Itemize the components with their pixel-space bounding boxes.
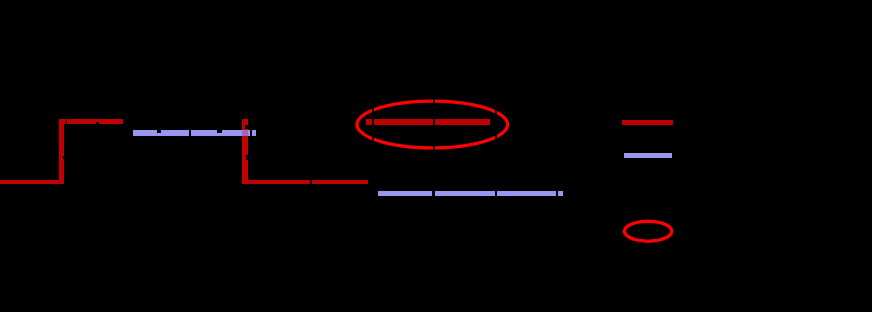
- junction: blue bar over red vertical blend: [242, 130, 248, 135]
- gridline gap through ellipse E1 and command bar at x=434: [433, 98, 435, 152]
- legend swatch: dark red command line: [622, 120, 673, 125]
- highlight ellipse E2 small (legend area): [625, 221, 672, 241]
- black rail nick on vertical 1 right edge: [63, 156, 65, 159]
- text-overlap notch on blue row bar 1: [157, 130, 161, 133]
- wire: RAS signal low segment right: [242, 180, 368, 185]
- gridline gap over blue data bar at x=496: [495, 189, 497, 198]
- wire: RAS falling edge vertical 2: [242, 119, 248, 184]
- text-overlap notch on blue row bar 2: [217, 130, 222, 133]
- wire: command bar inside ellipse (dark red): [366, 119, 491, 125]
- node: column data bus highlight bar (blue): [378, 191, 563, 196]
- gridline gap over blue data bar at x=557: [556, 189, 558, 198]
- text-overlap notch on RAS high segment: [96, 122, 99, 124]
- wire: RAS signal low segment left: [0, 180, 64, 184]
- wire: RAS high segment top: [59, 119, 123, 124]
- gridline gap through ellipse E1 and command bar at x=373: [372, 98, 374, 152]
- legend swatch: blue data line: [624, 153, 672, 158]
- black rail nick on vertical 2 right edge: [246, 155, 248, 160]
- node: row address bus highlight bar (blue): [133, 130, 250, 135]
- black notch on vertical 2 right half above bar: [245, 125, 248, 129]
- gridline gap over blue data bar at x=434: [432, 189, 435, 198]
- node: row address bus highlight stub: [252, 130, 256, 135]
- gridline gap over RAS low right segment at x=311: [310, 178, 313, 186]
- gridline gap over RAS high segment at x=66: [66, 118, 67, 124]
- wire: RAS rising edge vertical 1: [59, 119, 64, 185]
- gridline gap through ellipse E1 at x=496: [495, 98, 497, 152]
- gridline gap over blue row bar at x=189: [189, 129, 191, 137]
